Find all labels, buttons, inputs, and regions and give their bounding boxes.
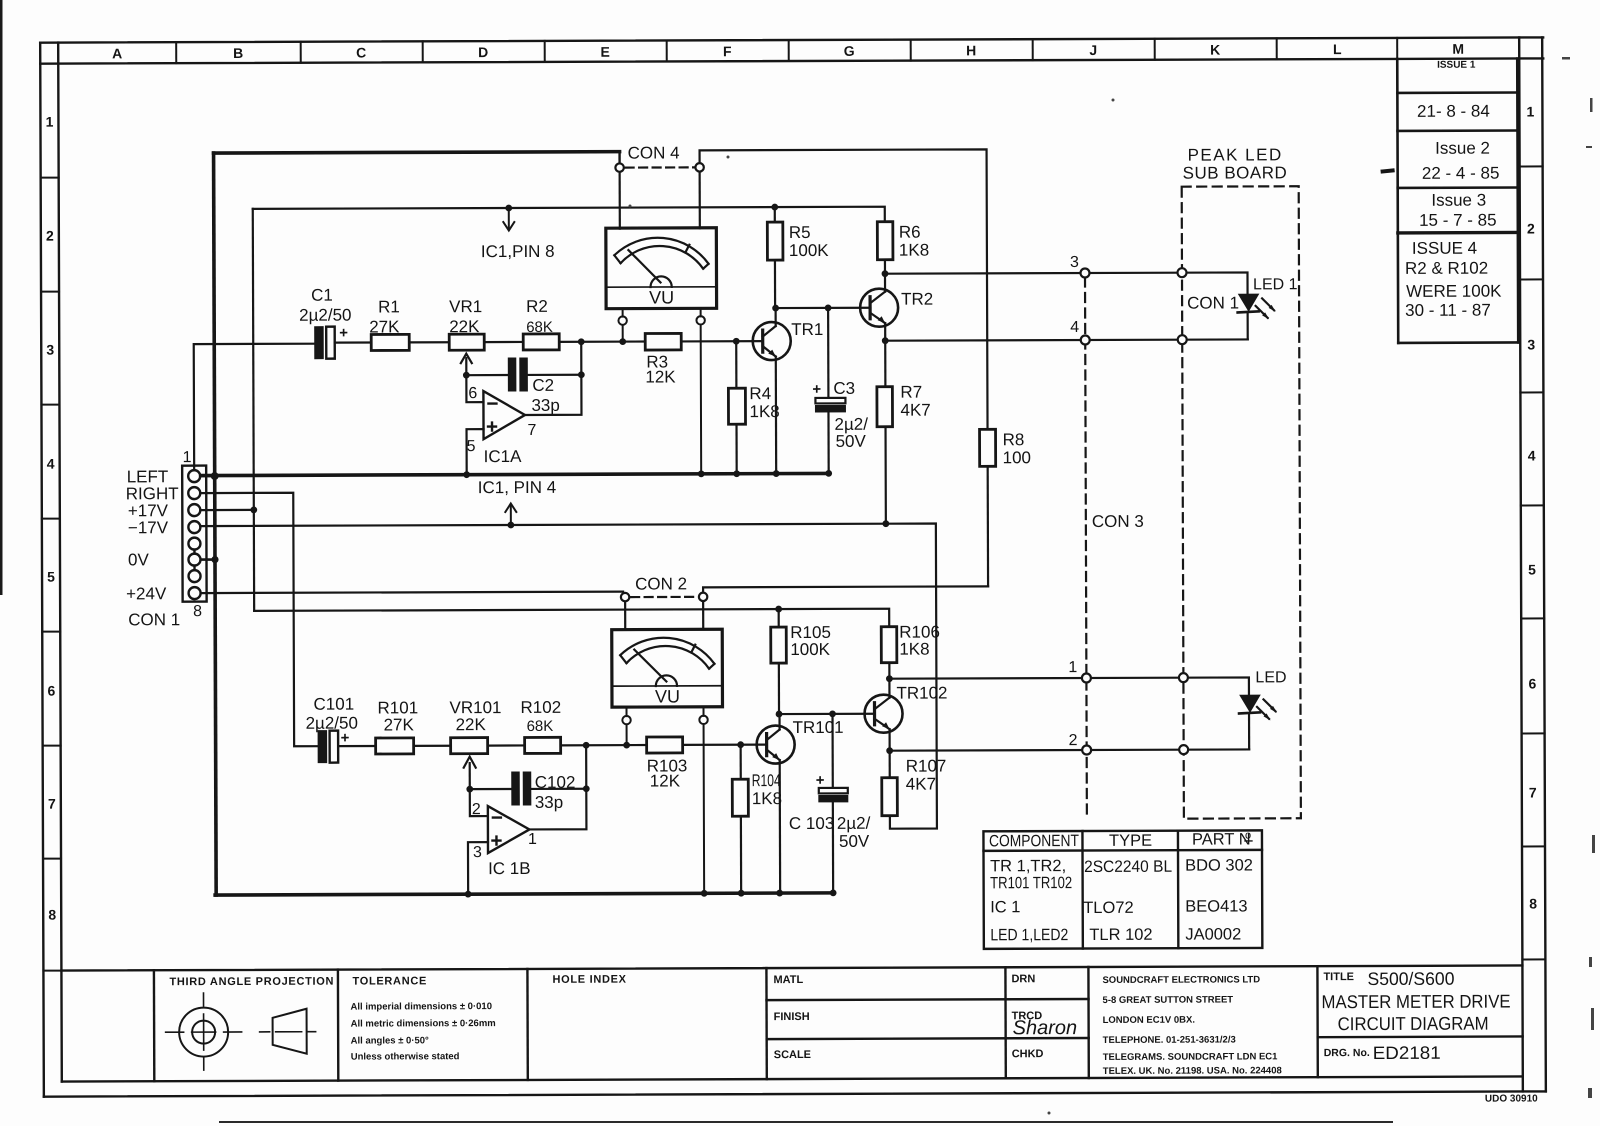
svg-text:COMPONENT: COMPONENT	[989, 832, 1079, 850]
svg-text:8: 8	[193, 603, 202, 620]
svg-text:C2: C2	[532, 376, 554, 395]
node circle 1b	[1179, 673, 1188, 682]
wire TR2 emitter down	[884, 323, 886, 340]
resistor R102	[525, 737, 561, 753]
wire R2 to node and VU tap	[559, 340, 645, 343]
svg-text:1: 1	[528, 831, 537, 848]
wire IC1A pin5 input from bus	[467, 429, 484, 475]
op-amp IC1B	[488, 806, 530, 853]
wire CON4 right pin up and right then down (R8 branch)	[700, 149, 988, 430]
resistor R106	[881, 627, 897, 679]
title block frame	[61, 965, 1522, 1081]
svg-text:SOUNDCRAFT ELECTRONICS LTD: SOUNDCRAFT ELECTRONICS LTD	[1102, 974, 1260, 986]
svg-text:VU: VU	[649, 287, 674, 307]
svg-text:7: 7	[1529, 784, 1537, 800]
svg-text:5: 5	[1528, 561, 1536, 577]
capacitor C103	[816, 714, 849, 893]
node circle 2a	[1082, 745, 1091, 754]
capacitor C102	[470, 772, 587, 805]
svg-text:SUB BOARD: SUB BOARD	[1183, 163, 1288, 182]
left grid numbers	[46, 114, 57, 923]
wire CON4 left pin to VU meter	[619, 172, 621, 228]
VU top meter bottom terminals	[618, 308, 705, 474]
svg-text:BDO 302: BDO 302	[1185, 856, 1253, 874]
svg-text:1K8: 1K8	[899, 241, 929, 260]
wire TR102 collector up to R106	[888, 679, 890, 698]
svg-text:C: C	[356, 45, 366, 61]
title text	[1321, 969, 1510, 1064]
svg-text:C 103: C 103	[789, 814, 834, 833]
svg-text:MASTER METER DRIVE: MASTER METER DRIVE	[1321, 991, 1510, 1013]
dashed box PEAK LED SUB BOARD outline	[1182, 186, 1301, 818]
left number column ticks	[41, 178, 62, 971]
wire CON4 right pin to VU meter	[699, 172, 701, 228]
wire mid thick bus y=473	[201, 473, 830, 475]
svg-text:12K: 12K	[650, 771, 681, 790]
svg-text:22K: 22K	[449, 317, 480, 336]
svg-text:R104: R104	[752, 771, 781, 790]
resistor R5	[767, 207, 783, 308]
svg-text:DRN: DRN	[1011, 973, 1035, 985]
LED 1	[1238, 294, 1276, 339]
wire CON2 right pin up to R8 branch	[703, 586, 988, 592]
svg-text:CON 1: CON 1	[128, 610, 180, 629]
wire node 2 from R107 top to LED	[890, 749, 1249, 750]
wire pin3 +17V stub	[200, 509, 253, 511]
svg-text:2SC2240 BL: 2SC2240 BL	[1084, 858, 1172, 876]
svg-text:68K: 68K	[527, 718, 554, 735]
svg-text:2: 2	[472, 801, 481, 818]
svg-text:TLR 102: TLR 102	[1089, 926, 1152, 944]
resistor R101	[376, 738, 414, 754]
svg-text:A: A	[112, 45, 122, 61]
capacitor C2	[466, 358, 581, 391]
svg-text:8: 8	[1529, 895, 1537, 911]
svg-text:o: o	[1245, 829, 1251, 841]
wire IC1A pin7 output	[525, 342, 582, 415]
connector CON 2	[621, 593, 707, 602]
svg-text:C102: C102	[535, 773, 576, 792]
svg-text:+: +	[812, 381, 821, 398]
svg-text:3: 3	[46, 342, 54, 358]
svg-text:IC1, PIN 4: IC1, PIN 4	[478, 478, 556, 497]
svg-text:R6: R6	[899, 223, 921, 242]
wire CON2 left pin to VU meter	[624, 602, 626, 630]
wire R102 to R103	[561, 744, 647, 747]
wire 0V thick bus: top horizontal	[214, 152, 620, 153]
svg-text:MATL: MATL	[773, 974, 803, 986]
wire R101 to VR101	[414, 745, 451, 747]
svg-text:2µ2/50: 2µ2/50	[299, 306, 351, 325]
svg-text:TOLERANCE: TOLERANCE	[352, 975, 427, 987]
svg-text:2µ2/50: 2µ2/50	[306, 714, 358, 733]
svg-text:+24V: +24V	[126, 584, 167, 603]
letters row cell dividers	[176, 38, 1397, 63]
svg-text:TR1: TR1	[791, 320, 823, 339]
wire IC1A pin6 input	[466, 375, 483, 402]
connector CON 1	[182, 466, 206, 602]
svg-text:1: 1	[1527, 103, 1535, 119]
svg-text:CON 4: CON 4	[628, 143, 680, 162]
capacitor C101	[318, 729, 376, 762]
transistor TR1	[753, 322, 791, 360]
svg-text:M: M	[1452, 41, 1464, 57]
svg-text:ISSUE 4: ISSUE 4	[1412, 239, 1477, 258]
svg-text:12K: 12K	[645, 367, 676, 386]
svg-text:CIRCUIT DIAGRAM: CIRCUIT DIAGRAM	[1338, 1013, 1489, 1035]
wire IC1B pin1 output	[529, 745, 586, 829]
node circle 3a	[1080, 268, 1089, 277]
svg-text:7: 7	[528, 422, 537, 439]
svg-text:4K7: 4K7	[900, 401, 930, 420]
wire TR2 collector up to R6	[884, 274, 886, 292]
VU bottom meter lower terminals	[622, 707, 708, 894]
svg-text:CON 3: CON 3	[1092, 512, 1144, 531]
svg-text:TELEGRAMS. SOUNDCRAFT LDN EC1: TELEGRAMS. SOUNDCRAFT LDN EC1	[1103, 1051, 1278, 1063]
scan edge line left	[0, 0, 3, 595]
svg-text:1: 1	[46, 114, 54, 130]
svg-text:R2: R2	[526, 297, 548, 316]
wire node 4 from TR2 emitter to LED1	[885, 339, 1247, 340]
svg-text:TR 1,TR2,: TR 1,TR2,	[990, 857, 1066, 875]
svg-text:6: 6	[468, 385, 477, 402]
wire TR101 collector up	[778, 714, 780, 729]
svg-text:TR102: TR102	[896, 683, 947, 702]
svg-text:All imperial dimensions ± 0·01: All imperial dimensions ± 0·010	[351, 1001, 492, 1012]
svg-text:R1: R1	[378, 297, 400, 316]
transistor TR102	[864, 695, 902, 733]
svg-text:R4: R4	[749, 384, 771, 403]
wire TR101 collector to TR102 base	[780, 713, 875, 716]
svg-text:1: 1	[183, 449, 192, 466]
resistor R2	[523, 334, 559, 350]
wire VR1 to R2	[484, 341, 523, 343]
title block small headers	[169, 971, 1369, 1063]
svg-text:TELEX. UK. No. 21198. USA. No.: TELEX. UK. No. 21198. USA. No. 224408	[1103, 1065, 1282, 1077]
svg-text:1K8: 1K8	[752, 789, 782, 808]
svg-text:R8: R8	[1003, 430, 1025, 449]
svg-text:BEO413: BEO413	[1185, 897, 1247, 915]
svg-text:TR101: TR101	[793, 718, 844, 737]
svg-text:R7: R7	[900, 383, 922, 402]
svg-text:JA0002: JA0002	[1185, 925, 1241, 943]
svg-text:33p: 33p	[535, 793, 563, 812]
resistor R105	[771, 609, 787, 714]
svg-text:22K: 22K	[456, 715, 487, 734]
svg-text:IC 1B: IC 1B	[488, 859, 531, 878]
dash mark left of issue block	[1383, 170, 1393, 171]
wire 0V stub from CON1 pins 5-7	[201, 558, 215, 561]
tolerance text	[351, 1001, 496, 1063]
wire IC1B pin2 input	[470, 789, 488, 816]
grid letters	[112, 41, 1464, 62]
svg-text:CON 2: CON 2	[635, 574, 687, 593]
node circle 4a	[1081, 335, 1090, 344]
svg-text:15 - 7 - 85: 15 - 7 - 85	[1419, 211, 1497, 230]
wire pin4 -17V long rail	[200, 524, 937, 832]
svg-text:3: 3	[1527, 336, 1535, 352]
svg-text:1K8: 1K8	[749, 402, 779, 421]
wire pin2 RIGHT down to lower channel input	[200, 493, 318, 747]
svg-text:4K7: 4K7	[906, 775, 936, 794]
wire +17V vertical riser	[253, 209, 254, 611]
svg-text:+: +	[816, 772, 825, 789]
svg-text:IC1,PIN 8: IC1,PIN 8	[481, 242, 555, 261]
svg-text:TELEPHONE. 01-251-3631/2/3: TELEPHONE. 01-251-3631/2/3	[1103, 1034, 1236, 1045]
company address text	[1102, 974, 1281, 1077]
svg-text:J: J	[1089, 42, 1097, 58]
svg-text:5: 5	[47, 569, 55, 585]
svg-text:R102: R102	[520, 698, 561, 717]
wire 0V thick bus: left vertical	[214, 153, 217, 895]
svg-text:3: 3	[473, 844, 482, 861]
svg-text:33p: 33p	[531, 396, 559, 415]
svg-text:SCALE: SCALE	[774, 1049, 811, 1061]
wire TR1 collector to TR2 base	[776, 307, 870, 310]
issue block text	[1404, 60, 1502, 320]
svg-text:5: 5	[467, 438, 476, 455]
svg-text:PART N: PART N	[1192, 830, 1251, 848]
arrow IC1 PIN 4	[505, 503, 516, 525]
svg-text:G: G	[844, 43, 855, 59]
svg-text:LED 1,LED2: LED 1,LED2	[990, 926, 1068, 944]
svg-text:50V: 50V	[839, 832, 870, 851]
svg-text:VR1: VR1	[449, 297, 482, 316]
issue block box	[1397, 58, 1518, 342]
LED 2	[1239, 695, 1277, 749]
svg-text:CON 1: CON 1	[1187, 293, 1239, 312]
third angle projection symbol	[165, 993, 315, 1071]
svg-text:3: 3	[1070, 254, 1079, 271]
svg-text:27K: 27K	[369, 317, 400, 336]
resistor R4	[728, 341, 745, 474]
wire pin8 +24V to CON2	[201, 592, 623, 593]
wire +17V lower rail y=609	[254, 609, 889, 629]
connector CON 4	[615, 151, 703, 172]
potentiometer VR1	[449, 334, 484, 375]
wire pin1 stub to 0V bus	[200, 475, 214, 477]
svg-text:Issue 2: Issue 2	[1435, 139, 1490, 158]
svg-text:CHKD: CHKD	[1012, 1048, 1044, 1060]
svg-text:2: 2	[46, 228, 54, 244]
svg-text:2: 2	[1527, 220, 1535, 236]
resistor R104	[732, 745, 749, 894]
svg-text:+: +	[339, 325, 348, 342]
svg-text:4: 4	[1070, 319, 1079, 336]
potentiometer VR101	[451, 738, 488, 790]
wire pin1 LEFT to input (up and right to C1)	[194, 344, 315, 470]
svg-text:LONDON EC1V 0BX.: LONDON EC1V 0BX.	[1103, 1015, 1195, 1026]
svg-text:27K: 27K	[384, 715, 415, 734]
component table box	[983, 830, 1262, 948]
CON 1 pin labels	[126, 449, 203, 629]
wire node 1 from R106 to LED	[889, 677, 1249, 696]
svg-text:ISSUE 1: ISSUE 1	[1437, 60, 1476, 71]
transistor TR101	[757, 726, 795, 764]
wire +17V upper rail y=207	[253, 207, 885, 224]
svg-text:6: 6	[48, 683, 56, 699]
svg-text:S500/S600: S500/S600	[1367, 969, 1454, 989]
wire TR1 emitter down	[775, 357, 778, 474]
svg-text:4: 4	[1528, 447, 1536, 463]
bottom scan line	[220, 1121, 1392, 1123]
resistor R6	[877, 222, 893, 274]
svg-text:FINISH: FINISH	[774, 1011, 810, 1023]
svg-text:TLO72: TLO72	[1083, 899, 1134, 917]
capacitor C3	[812, 308, 846, 474]
wire node 3 from R6 to LED1	[885, 272, 1248, 296]
wire R3 to TR1 base	[681, 340, 762, 342]
svg-text:2µ2/: 2µ2/	[837, 814, 871, 833]
svg-text:C3: C3	[833, 379, 855, 398]
svg-text:7: 7	[48, 796, 56, 812]
svg-text:L: L	[1333, 41, 1342, 57]
op-amp IC1A	[483, 391, 525, 439]
svg-text:100: 100	[1003, 448, 1031, 467]
svg-text:R5: R5	[789, 223, 811, 242]
svg-text:VU: VU	[655, 686, 680, 706]
svg-text:WERE 100K: WERE 100K	[1406, 282, 1502, 301]
node circle 2b	[1179, 745, 1188, 754]
wire TR102 emitter down	[888, 729, 890, 750]
svg-text:0V: 0V	[128, 550, 150, 569]
svg-text:50V: 50V	[836, 432, 867, 451]
svg-text:C101: C101	[313, 695, 354, 714]
capacitor C1	[315, 324, 372, 358]
VU meter (top)	[606, 228, 717, 309]
svg-text:E: E	[601, 44, 610, 60]
svg-text:5-8 GREAT SUTTON STREET: 5-8 GREAT SUTTON STREET	[1103, 994, 1234, 1005]
resistor R7	[877, 341, 893, 524]
svg-text:30 - 11 - 87: 30 - 11 - 87	[1405, 301, 1491, 320]
svg-text:UDO 30910: UDO 30910	[1485, 1093, 1538, 1104]
svg-text:PEAK LED: PEAK LED	[1188, 145, 1283, 164]
svg-text:1K8: 1K8	[899, 640, 929, 659]
svg-text:6: 6	[1528, 675, 1536, 691]
svg-text:100K: 100K	[790, 640, 830, 659]
wire R103 to TR101 base	[683, 744, 767, 746]
svg-text:DRG. No.: DRG. No.	[1324, 1047, 1370, 1059]
svg-text:F: F	[723, 43, 732, 59]
resistor R1	[371, 334, 409, 350]
svg-text:TYPE: TYPE	[1109, 832, 1152, 850]
arrow IC1 PIN 8	[503, 208, 514, 231]
svg-text:R107: R107	[906, 756, 947, 775]
scan noise specks	[629, 57, 1596, 1115]
svg-text:22 - 4 - 85: 22 - 4 - 85	[1422, 164, 1500, 183]
svg-text:ED2181: ED2181	[1373, 1043, 1441, 1063]
resistor R3	[645, 333, 681, 350]
svg-text:2: 2	[1069, 732, 1078, 749]
wire TR101 emitter down	[779, 760, 782, 893]
right grid numbers	[1527, 103, 1538, 911]
VU meter (bottom)	[612, 629, 723, 707]
resistor R107	[882, 751, 898, 816]
svg-text:21- 8 - 84: 21- 8 - 84	[1417, 102, 1490, 121]
svg-text:LED 1: LED 1	[1253, 276, 1298, 293]
node circle 4b	[1178, 335, 1187, 344]
transistor TR2	[860, 289, 898, 327]
svg-text:IC1A: IC1A	[484, 447, 523, 466]
svg-text:1: 1	[1068, 659, 1077, 676]
svg-text:8: 8	[48, 907, 56, 923]
svg-text:TITLE: TITLE	[1323, 971, 1354, 983]
resistor R103	[647, 737, 683, 753]
svg-text:TR101 TR102: TR101 TR102	[990, 874, 1072, 892]
svg-text:H: H	[966, 42, 976, 58]
wire IC1B pin3 input from rail	[468, 842, 488, 894]
node circle 1a	[1082, 673, 1091, 682]
svg-text:−17V: −17V	[128, 518, 169, 537]
svg-text:K: K	[1210, 42, 1220, 58]
svg-text:Sharon: Sharon	[1013, 1017, 1078, 1039]
svg-text:68K: 68K	[526, 319, 553, 336]
resistor R8	[980, 429, 997, 586]
wire CON2 right pin to VU meter	[702, 601, 704, 629]
right number column ticks	[1520, 166, 1546, 959]
svg-text:4: 4	[47, 456, 55, 472]
svg-text:LED: LED	[1255, 669, 1286, 686]
wire TR1 collector up	[775, 308, 777, 326]
wire 0V thick bus: bottom rail	[215, 893, 832, 895]
node circle 3b	[1177, 268, 1186, 277]
svg-text:THIRD ANGLE PROJECTION: THIRD ANGLE PROJECTION	[169, 976, 334, 989]
svg-text:TR2: TR2	[901, 290, 933, 309]
wire VR101 to R102	[488, 744, 525, 746]
dashed connector CON 3 vertical	[1085, 278, 1087, 819]
svg-text:D: D	[478, 44, 488, 60]
svg-text:All angles ± 0·50°: All angles ± 0·50°	[351, 1035, 429, 1046]
svg-text:C1: C1	[311, 286, 333, 305]
svg-text:B: B	[233, 45, 243, 61]
svg-text:IC 1: IC 1	[990, 898, 1020, 916]
wire R1 to VR1	[409, 341, 449, 343]
component table text	[989, 829, 1253, 944]
svg-text:100K: 100K	[789, 241, 829, 260]
svg-text:HOLE INDEX: HOLE INDEX	[552, 974, 626, 986]
svg-text:All metric dimensions ± 0·26mm: All metric dimensions ± 0·26mm	[351, 1018, 496, 1030]
svg-text:R2 & R102: R2 & R102	[1405, 259, 1488, 278]
svg-text:Issue 3: Issue 3	[1431, 191, 1486, 210]
svg-text:Unless otherwise stated: Unless otherwise stated	[351, 1051, 460, 1062]
